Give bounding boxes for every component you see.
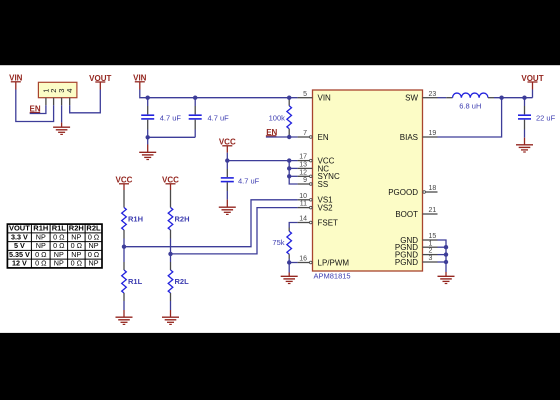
junction VOUT/C4 bbox=[522, 96, 526, 100]
wire BIAS net bbox=[438, 98, 502, 137]
resistor R2H bbox=[168, 184, 189, 247]
svg-text:17: 17 bbox=[299, 154, 307, 161]
wire PGND1 bbox=[438, 246, 447, 248]
svg-text:4.7 uF: 4.7 uF bbox=[208, 114, 230, 123]
supply VCC (bypass) bbox=[219, 138, 236, 147]
net label EN (connector) bbox=[30, 105, 41, 114]
svg-text:SS: SS bbox=[318, 180, 329, 189]
pin 21 BOOT bbox=[395, 207, 437, 219]
svg-text:0 Ω: 0 Ω bbox=[35, 250, 47, 259]
svg-text:R1H: R1H bbox=[128, 215, 143, 224]
svg-text:NP: NP bbox=[54, 250, 64, 259]
svg-text:EN: EN bbox=[318, 133, 329, 142]
ground (VCC cap) bbox=[219, 207, 236, 214]
pin 1 stub J1 bbox=[45, 98, 47, 106]
pin 17 VCC bbox=[298, 154, 335, 166]
supply VOUT (main) bbox=[521, 74, 543, 83]
resistor R4 75k bbox=[272, 228, 291, 263]
inductor L1 6.8 uH bbox=[446, 93, 494, 110]
svg-text:R2L: R2L bbox=[86, 224, 101, 233]
wire VCC stem to junction bbox=[226, 146, 228, 161]
pin 16 LP/PWM bbox=[298, 256, 350, 268]
junction C1 bottom bbox=[146, 135, 150, 139]
junction PGND2 bbox=[444, 252, 448, 256]
wire VOUT to J1 pin 4 bbox=[70, 82, 101, 113]
ground (input caps) bbox=[139, 152, 156, 159]
table VOUT/R settings bbox=[7, 224, 102, 268]
ground (R1L) bbox=[116, 317, 133, 324]
svg-text:VIN: VIN bbox=[318, 94, 332, 103]
junction 75k bottom bbox=[287, 260, 291, 264]
ground (connector) bbox=[53, 127, 70, 134]
junction SW/BIAS bbox=[499, 96, 503, 100]
pin 11 VS2 bbox=[298, 201, 334, 213]
svg-text:PGOOD: PGOOD bbox=[388, 188, 418, 197]
svg-text:0 Ω: 0 Ω bbox=[53, 232, 65, 241]
capacitor C4 22 uF bbox=[518, 98, 556, 145]
svg-text:12 V: 12 V bbox=[12, 259, 27, 268]
op-amp U1 APM81815 body bbox=[313, 90, 423, 271]
pin 7 EN bbox=[298, 130, 329, 142]
pin 18 PGOOD bbox=[388, 185, 437, 197]
ground (75k) bbox=[281, 276, 298, 283]
supply VCC (R1H) bbox=[116, 176, 133, 185]
wire to pin 12 bbox=[289, 175, 297, 177]
svg-text:4.7 uF: 4.7 uF bbox=[238, 176, 260, 185]
junction PGND3 bbox=[444, 260, 448, 264]
svg-text:FSET: FSET bbox=[318, 218, 339, 227]
svg-text:R1L: R1L bbox=[52, 224, 67, 233]
resistor R1H bbox=[122, 184, 143, 247]
wire VOUT stem bbox=[532, 82, 534, 98]
wire GND column to ground bbox=[445, 272, 447, 276]
svg-text:22 uF: 22 uF bbox=[536, 114, 556, 123]
wire VCC bus down pins 13 12 9 bbox=[289, 161, 297, 184]
svg-text:9: 9 bbox=[303, 177, 307, 184]
wire to pin 13 bbox=[289, 167, 297, 169]
svg-text:2: 2 bbox=[429, 248, 433, 255]
svg-text:3: 3 bbox=[429, 255, 433, 262]
wire C1 to ground bbox=[147, 137, 149, 144]
svg-text:7: 7 bbox=[303, 130, 307, 137]
supply VCC (R2H) bbox=[162, 176, 179, 185]
pin 5 VIN bbox=[298, 91, 331, 103]
svg-text:4: 4 bbox=[65, 89, 74, 93]
svg-text:5.35 V: 5.35 V bbox=[9, 250, 30, 259]
resistor R3 100k bbox=[269, 98, 292, 137]
wire VIN to J1 pin 2 bbox=[16, 82, 54, 122]
wire VCC to pin 17 bbox=[227, 160, 297, 162]
pin 10 VS1 bbox=[298, 193, 334, 205]
ground (IC GND) bbox=[438, 276, 455, 283]
junction PGND1 bbox=[444, 245, 448, 249]
svg-text:NP: NP bbox=[71, 232, 81, 241]
wire VS1 net bbox=[124, 200, 298, 247]
wire PGND3 bbox=[438, 261, 447, 263]
svg-text:5 V: 5 V bbox=[14, 241, 25, 250]
svg-text:BIAS: BIAS bbox=[400, 133, 418, 142]
svg-text:0 Ω: 0 Ω bbox=[88, 250, 100, 259]
svg-text:3.3 V: 3.3 V bbox=[11, 232, 28, 241]
svg-text:VIN: VIN bbox=[133, 74, 147, 83]
svg-text:VCC: VCC bbox=[162, 176, 179, 185]
svg-text:15: 15 bbox=[429, 233, 437, 240]
pin 2 stub J1 bbox=[53, 98, 55, 106]
pin 13 NC bbox=[298, 162, 330, 174]
net label EN (at IC) bbox=[266, 128, 278, 137]
wire EN to pin 7 bbox=[266, 136, 298, 138]
junction VCC bbox=[225, 158, 229, 162]
svg-text:PGND: PGND bbox=[395, 258, 418, 267]
svg-text:19: 19 bbox=[429, 130, 437, 137]
svg-text:VS2: VS2 bbox=[318, 204, 334, 213]
svg-text:VCC: VCC bbox=[219, 138, 236, 147]
svg-text:4.7 uF: 4.7 uF bbox=[160, 114, 182, 123]
svg-text:R1L: R1L bbox=[128, 277, 143, 286]
junction C2 top bbox=[193, 96, 197, 100]
svg-text:BOOT: BOOT bbox=[395, 210, 418, 219]
svg-text:12: 12 bbox=[299, 169, 307, 176]
svg-text:1: 1 bbox=[429, 240, 433, 247]
svg-text:NP: NP bbox=[54, 259, 64, 268]
wire GND/PGND net bbox=[438, 240, 447, 272]
junction EN / 100k bottom bbox=[287, 135, 291, 139]
svg-text:VOUT: VOUT bbox=[521, 74, 543, 83]
pin 2 PGND bbox=[395, 248, 438, 260]
pin 4 stub J1 bbox=[69, 98, 71, 106]
svg-text:18: 18 bbox=[429, 185, 437, 192]
svg-text:14: 14 bbox=[299, 216, 307, 223]
svg-text:NP: NP bbox=[36, 241, 46, 250]
svg-text:SW: SW bbox=[405, 94, 418, 103]
supply VOUT (connector) bbox=[89, 74, 111, 83]
capacitor C3 4.7 uF bbox=[221, 161, 260, 208]
ground (output cap) bbox=[516, 145, 533, 152]
wire PGND2 bbox=[438, 254, 447, 256]
wire FSET to 75k bbox=[289, 223, 297, 228]
wire 75k to ground bbox=[288, 263, 290, 277]
junction pin12 line bbox=[287, 174, 291, 178]
svg-text:VOUT: VOUT bbox=[89, 74, 111, 83]
capacitor C2 4.7 uF bbox=[189, 98, 229, 138]
junction 100k top bbox=[287, 96, 291, 100]
svg-text:21: 21 bbox=[429, 207, 437, 214]
pin 23 SW bbox=[405, 91, 437, 103]
junction pin13 line bbox=[287, 166, 291, 170]
pin 3 stub J1 bbox=[61, 98, 63, 106]
ground (R2L) bbox=[162, 317, 179, 324]
pin 19 BIAS bbox=[400, 130, 438, 142]
junction R2 divider bbox=[168, 252, 172, 256]
capacitor C1 4.7 uF bbox=[141, 98, 181, 138]
supply VIN (main) bbox=[133, 74, 147, 83]
svg-text:100k: 100k bbox=[269, 113, 286, 122]
svg-text:0 Ω: 0 Ω bbox=[71, 241, 83, 250]
wire EN to J1 pin 1 bbox=[30, 105, 46, 113]
svg-text:0 Ω: 0 Ω bbox=[71, 259, 83, 268]
resistor R2L bbox=[168, 247, 189, 318]
wire inductor to VOUT bbox=[494, 97, 533, 99]
svg-text:R2H: R2H bbox=[69, 224, 84, 233]
junction R1 divider bbox=[122, 245, 126, 249]
svg-text:NP: NP bbox=[36, 232, 46, 241]
supply VIN (connector) bbox=[9, 74, 23, 83]
svg-text:APM81815: APM81815 bbox=[314, 272, 351, 281]
wire J1 pin 3 to ground bbox=[61, 105, 63, 127]
svg-text:VIN: VIN bbox=[9, 74, 23, 83]
pin 3 PGND bbox=[395, 255, 438, 267]
svg-text:NP: NP bbox=[71, 250, 81, 259]
svg-text:0 Ω: 0 Ω bbox=[53, 241, 65, 250]
svg-text:16: 16 bbox=[299, 256, 307, 263]
svg-text:NP: NP bbox=[89, 241, 99, 250]
svg-text:R2L: R2L bbox=[175, 277, 190, 286]
junction C1 top bbox=[146, 96, 150, 100]
svg-text:6.8 uH: 6.8 uH bbox=[459, 101, 481, 110]
connector J1 4-pin header bbox=[38, 82, 77, 97]
svg-text:23: 23 bbox=[429, 91, 437, 98]
svg-text:13: 13 bbox=[299, 162, 307, 169]
svg-text:0 Ω: 0 Ω bbox=[35, 259, 47, 268]
svg-text:R2H: R2H bbox=[175, 215, 190, 224]
pin 14 FSET bbox=[298, 216, 338, 228]
svg-text:11: 11 bbox=[300, 201, 307, 208]
svg-text:R1H: R1H bbox=[33, 224, 48, 233]
resistor R1L bbox=[122, 247, 143, 318]
pin 9 SS bbox=[298, 177, 329, 189]
pin 1 PGND bbox=[395, 240, 438, 252]
svg-text:5: 5 bbox=[303, 91, 307, 98]
wire LP/PWM to pin 16 bbox=[289, 262, 297, 264]
svg-text:VOUT: VOUT bbox=[9, 224, 30, 233]
junction pin17 line bbox=[287, 158, 291, 162]
svg-text:75k: 75k bbox=[272, 238, 284, 247]
pin 12 SYNC bbox=[298, 169, 340, 181]
svg-text:LP/PWM: LP/PWM bbox=[318, 258, 350, 267]
wire C1-C2 bottoms bbox=[148, 136, 196, 138]
wire SW to inductor bbox=[438, 97, 447, 99]
svg-text:VCC: VCC bbox=[116, 176, 133, 185]
wire VS2 net bbox=[171, 208, 298, 254]
pin 15 GND bbox=[400, 233, 437, 245]
wire VIN stem bbox=[140, 82, 298, 98]
svg-text:NP: NP bbox=[89, 259, 99, 268]
svg-text:0 Ω: 0 Ω bbox=[88, 232, 100, 241]
svg-text:10: 10 bbox=[299, 193, 307, 200]
